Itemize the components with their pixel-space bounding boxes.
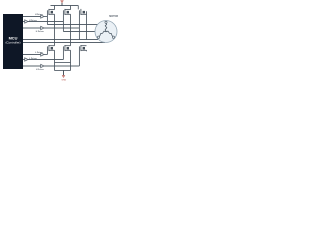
svg-text:L Driver: L Driver [29, 57, 37, 60]
svg-text:L Driver: L Driver [36, 68, 44, 71]
svg-text:H Driver: H Driver [36, 30, 44, 33]
svg-text:H Driver: H Driver [29, 19, 37, 22]
svg-text:L Driver: L Driver [35, 51, 43, 54]
svg-text:H Driver: H Driver [35, 13, 43, 16]
svg-text:MOTOR: MOTOR [109, 15, 118, 18]
svg-text:GND: GND [61, 79, 66, 81]
svg-text:(Controller): (Controller) [5, 40, 20, 44]
